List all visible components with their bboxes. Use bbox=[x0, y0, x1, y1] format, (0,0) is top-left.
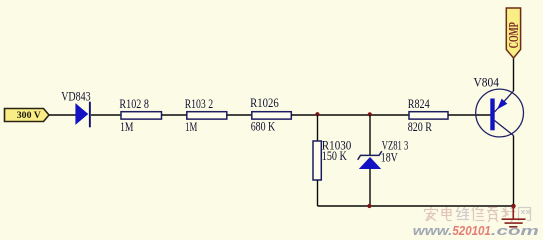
wire R1030 to bottom rail bbox=[317, 180, 319, 206]
transistor V804 bbox=[476, 89, 524, 137]
watermark www.520101.com bbox=[413, 223, 539, 238]
wire junction down to zener bbox=[369, 115, 371, 156]
svg-text:680 K: 680 K bbox=[251, 120, 276, 134]
zener diode VZ813 bbox=[358, 151, 382, 169]
resistor R824 bbox=[409, 112, 448, 119]
resistor R1028 bbox=[121, 112, 162, 119]
wire emitter to COMP port bbox=[513, 58, 515, 91]
wire diode to R1028 bbox=[91, 114, 121, 116]
wire R1028 to R1032 bbox=[162, 114, 187, 116]
wire R824 to transistor base bbox=[448, 114, 491, 116]
wire R1026 to R824 bbox=[291, 114, 409, 116]
power port 300V bbox=[5, 109, 50, 122]
wire collector to bottom rail bbox=[513, 136, 515, 207]
junction node zener at rail bbox=[367, 204, 371, 208]
wire R1032 to R1026 bbox=[227, 114, 252, 116]
svg-text:VD843: VD843 bbox=[61, 89, 90, 103]
svg-text:COMP: COMP bbox=[506, 22, 521, 48]
resistor R1026 bbox=[252, 112, 291, 119]
port COMP bbox=[506, 8, 521, 58]
svg-text:150 K: 150 K bbox=[322, 149, 347, 163]
resistor R1030 bbox=[313, 141, 321, 180]
svg-text:R102 8: R102 8 bbox=[119, 97, 148, 111]
wire junction down to R1030 bbox=[317, 115, 319, 141]
svg-text:520101: 520101 bbox=[452, 223, 490, 238]
wire flag to diode bbox=[49, 114, 76, 116]
svg-text:www.: www. bbox=[413, 223, 453, 238]
resistor R1032 bbox=[187, 112, 227, 119]
watermark text 家电维修资料网 bbox=[425, 207, 531, 222]
svg-text:820 R: 820 R bbox=[408, 120, 433, 134]
bottom rail wire bbox=[318, 205, 514, 207]
junction node at R1030 branch bbox=[315, 112, 319, 116]
svg-text:V804: V804 bbox=[474, 75, 500, 89]
svg-text:R824: R824 bbox=[408, 97, 430, 111]
wire zener to bottom rail bbox=[369, 169, 371, 206]
svg-text:1M: 1M bbox=[185, 120, 197, 134]
junction node collector at rail bbox=[511, 204, 516, 209]
svg-text:.com: .com bbox=[491, 223, 539, 238]
diode VD843 bbox=[75, 102, 90, 128]
junction node at VZ813 branch bbox=[368, 112, 372, 116]
svg-text:R103 2: R103 2 bbox=[185, 97, 213, 111]
svg-text:18V: 18V bbox=[381, 151, 398, 165]
ground bbox=[502, 206, 526, 227]
svg-text:1M: 1M bbox=[120, 120, 133, 134]
svg-text:R1026: R1026 bbox=[250, 96, 279, 110]
svg-text:300 V: 300 V bbox=[17, 110, 41, 121]
